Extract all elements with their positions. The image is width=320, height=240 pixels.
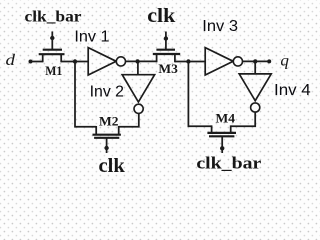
M2 gate lead bbox=[106, 138, 108, 153]
M2 channel bar bbox=[93, 134, 121, 136]
M2 left lead bbox=[95, 126, 97, 135]
Inv2 bubble bbox=[134, 104, 143, 113]
wire Inv2 input riser bbox=[137, 61, 139, 74]
svg-text:q: q bbox=[280, 52, 289, 69]
M2 right lead bbox=[118, 126, 120, 135]
M4 left lead bbox=[211, 125, 213, 132]
wire M3 to Inv3 bbox=[175, 61, 205, 63]
wire right feedback riser bbox=[188, 62, 211, 127]
M1 channel bar bbox=[39, 53, 65, 55]
svg-text:Inv 4: Inv 4 bbox=[274, 82, 311, 99]
Inv4 bubble bbox=[251, 103, 260, 112]
svg-text:M2: M2 bbox=[99, 114, 119, 129]
wire M1 to Inv1 bbox=[61, 61, 88, 63]
M3 gate terminal dot bbox=[164, 36, 168, 40]
M1 gate lead bbox=[51, 32, 53, 50]
svg-text:d: d bbox=[6, 52, 17, 69]
transistor M2 bbox=[93, 126, 121, 153]
M4 gate terminal dot bbox=[220, 146, 224, 150]
svg-text:clk: clk bbox=[147, 6, 175, 27]
wire Inv1 to M3 bbox=[126, 60, 157, 62]
node junction Inv1 output bbox=[135, 59, 139, 63]
op-amp Inv3 triangle bbox=[205, 48, 233, 75]
svg-text:clk_bar: clk_bar bbox=[25, 8, 82, 25]
M1 left lead bbox=[42, 54, 44, 62]
svg-text:clk_bar: clk_bar bbox=[196, 153, 261, 172]
node junction after M3 bbox=[186, 59, 190, 63]
M1 gate terminal dot bbox=[50, 36, 54, 40]
M1 right lead bbox=[60, 54, 62, 62]
transistor M3 bbox=[153, 32, 180, 63]
svg-text:Inv 1: Inv 1 bbox=[74, 28, 109, 45]
svg-text:clk: clk bbox=[99, 155, 126, 177]
wire left feedback riser bbox=[75, 62, 96, 127]
M4 right lead bbox=[230, 125, 232, 132]
transistor M4 bbox=[207, 125, 236, 153]
Inv1 bubble bbox=[116, 57, 125, 66]
transistor M1 bbox=[39, 32, 65, 63]
M3 gate bar bbox=[156, 49, 175, 51]
svg-text:M1: M1 bbox=[45, 63, 62, 78]
M3 gate lead bbox=[165, 32, 167, 50]
M3 left lead bbox=[156, 54, 158, 62]
svg-text:Inv 2: Inv 2 bbox=[90, 83, 125, 100]
svg-text:Inv 3: Inv 3 bbox=[202, 18, 238, 35]
op-amp Inv1 triangle bbox=[88, 48, 116, 75]
op-amp Inv2 triangle bbox=[122, 75, 154, 102]
M4 channel bar bbox=[207, 132, 236, 134]
wire Inv3 to q bbox=[243, 60, 270, 62]
node junction Inv3 output bbox=[253, 59, 257, 63]
wire Inv4 output to M4 bbox=[231, 112, 256, 126]
svg-text:M3: M3 bbox=[158, 61, 178, 76]
node q terminal dot bbox=[267, 59, 271, 63]
M4 gate bar bbox=[209, 135, 234, 137]
M1 gate bar bbox=[43, 49, 62, 51]
Inv3 bubble bbox=[233, 57, 242, 66]
node d terminal dot bbox=[29, 60, 33, 64]
node junction after M1 bbox=[73, 59, 77, 63]
wire Inv4 input riser bbox=[254, 61, 256, 74]
svg-text:M4: M4 bbox=[216, 111, 236, 126]
wire Inv2 output to M2 bbox=[119, 113, 139, 126]
M3 channel bar bbox=[153, 53, 180, 55]
wire d to M1 bbox=[31, 61, 43, 63]
M3 right lead bbox=[174, 54, 176, 62]
M2 gate bar bbox=[94, 137, 119, 139]
M4 gate lead bbox=[221, 136, 223, 153]
M2 gate terminal dot bbox=[104, 146, 108, 150]
op-amp Inv4 triangle bbox=[239, 74, 271, 101]
